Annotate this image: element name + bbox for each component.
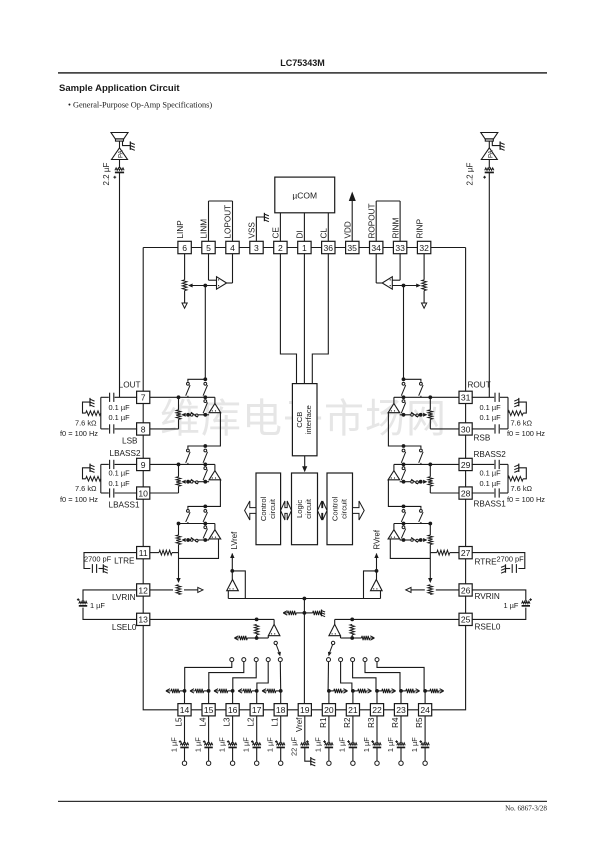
attenuator lower arrow (R) (423, 291, 425, 303)
bus node left (L) (177, 463, 181, 467)
svg-text:f0 = 100 Hz: f0 = 100 Hz (507, 495, 545, 504)
resistor row wire (R) (400, 481, 411, 483)
pin 18 terminal (280, 748, 282, 761)
pin 3 (VSS) (250, 241, 263, 253)
left column wire to pin 14 (143, 626, 178, 710)
power amp PA (R) (481, 148, 497, 160)
input attenuator from pin 32 (R) (423, 254, 425, 280)
vertical below attenuator (L) (178, 419, 180, 429)
top pin bus wire (143, 247, 465, 249)
selector switch pole (L) (274, 641, 277, 644)
bus node left (R) (428, 395, 432, 399)
Vref branch left attenuator (296, 612, 304, 614)
header rule (58, 72, 547, 73)
volume attenuator (R) (429, 524, 431, 536)
pin 16 (L3) (226, 704, 239, 716)
svg-text:11: 11 (139, 548, 148, 558)
VSS chassis ground (263, 213, 265, 221)
Vref wire with up arrow (R) (376, 554, 378, 571)
block top elbow wire (R) (404, 379, 421, 382)
svg-text:7.6 kΩ: 7.6 kΩ (511, 484, 533, 493)
resistor row wire (L) (199, 414, 210, 416)
pin 26 (RVRIN) (459, 584, 472, 596)
svg-text:4: 4 (230, 243, 235, 253)
pin 21 terminal (352, 748, 354, 761)
resistor 7.6 kOhm (L) (86, 411, 101, 416)
pin 13 (LSEL0) (137, 613, 150, 625)
svg-text:33: 33 (395, 243, 405, 253)
switch below bus (L) (204, 526, 207, 529)
svg-text:LINP: LINP (176, 220, 185, 239)
buffer amp (L) (214, 524, 216, 530)
SEL0 buffer amp (L) (273, 619, 275, 624)
treble buffer output link (L) (179, 539, 219, 559)
svg-text:0.1 µF: 0.1 µF (109, 479, 131, 488)
left column interconnect wire (142, 391, 144, 625)
svg-text:1 µF: 1 µF (362, 737, 371, 752)
svg-text:7: 7 (141, 393, 146, 403)
buffer amp (R) (393, 464, 395, 470)
svg-text:26: 26 (461, 585, 471, 595)
svg-text:Control: Control (259, 496, 268, 521)
contact routing wires (L) (185, 662, 232, 691)
SEL0 attenuator (L) (247, 637, 256, 639)
SEL0 wire (L) (150, 618, 274, 620)
svg-text:CCB: CCB (295, 412, 304, 428)
volume attenuator (L) (178, 397, 180, 410)
attenuator tap arrow (L) (186, 538, 190, 542)
svg-text:RVRIN: RVRIN (475, 592, 500, 601)
speaker (L) (111, 133, 128, 139)
selector contacts row (L) (230, 658, 234, 662)
chassis ground (R) (518, 464, 520, 472)
svg-text:Logic: Logic (295, 500, 304, 518)
pin 15 terminal (208, 748, 210, 761)
buffer amp (R) (393, 397, 395, 403)
switch on resistor row (L) (190, 480, 193, 483)
pin 29 (RBASS2) (459, 458, 472, 470)
CCB to logic arrow (304, 456, 306, 467)
coupling cap 0.1uF upper (L) (115, 396, 138, 398)
svg-text:RINP: RINP (415, 218, 424, 238)
svg-text:25: 25 (461, 615, 471, 625)
switch upper-left (L) (187, 382, 190, 385)
SEL0 node (R) (350, 618, 354, 622)
pin 16 terminal (232, 748, 234, 761)
capacitor 2.2 uF (L) (115, 168, 124, 170)
control circuit box (L) (256, 473, 281, 545)
svg-text:No. 6867-3/28: No. 6867-3/28 (505, 805, 547, 813)
svg-text:1 µF: 1 µF (266, 737, 275, 752)
logic circuit box (292, 473, 318, 545)
pin 27 (RTRE) (459, 547, 472, 559)
block top node (L) (203, 377, 207, 381)
right column wire to pin 24 (432, 626, 466, 710)
svg-text:30: 30 (461, 424, 471, 434)
op-amp output wire (L) (227, 282, 233, 284)
svg-text:7.6 kΩ: 7.6 kΩ (511, 419, 533, 428)
svg-text:1 µF: 1 µF (504, 601, 519, 610)
svg-text:31: 31 (461, 393, 471, 403)
pin 7 (LOUT) (137, 391, 150, 403)
selector contacts row (R) (375, 658, 379, 662)
svg-text:28: 28 (461, 488, 471, 498)
pin 18 cap 1 uF (280, 716, 282, 743)
svg-text:22: 22 (372, 705, 382, 715)
svg-text:14: 14 (180, 705, 190, 715)
svg-text:R3: R3 (367, 717, 376, 728)
pin 24 (R5) (419, 704, 432, 716)
non-inverting input wire (R) (392, 285, 419, 287)
attenuator tap arrow (R) (419, 538, 423, 542)
bus node left (L) (177, 395, 181, 399)
svg-text:• General-Purpose Op-Amp Speci: • General-Purpose Op-Amp Specifications) (68, 101, 212, 110)
resistor row wire (R) (400, 414, 411, 416)
coupling cap 0.1uF lower (R) (472, 492, 495, 494)
resistor 7.6 kOhm (R) (508, 476, 523, 481)
pin 35 (VDD) (346, 241, 359, 253)
switch upper-right (L) (204, 382, 207, 385)
svg-text:1 µF: 1 µF (169, 737, 178, 752)
svg-text:VDD: VDD (343, 221, 352, 238)
svg-text:CL: CL (320, 228, 329, 239)
svg-text:23: 23 (396, 705, 406, 715)
svg-text:interface: interface (304, 405, 313, 434)
pin 20 (R1) (322, 704, 335, 716)
svg-text:LVref: LVref (230, 531, 239, 550)
pin 15 cap 1 uF (208, 716, 210, 743)
SEL0 buffer input wire (L) (257, 637, 269, 639)
coupling cap 0.1uF upper (R) (472, 463, 495, 465)
SEL0 node (L) (255, 618, 259, 622)
block top node (R) (402, 444, 406, 448)
resistor ground wire (L) (83, 468, 90, 479)
volume attenuator (L) (178, 524, 180, 536)
input node (R) (402, 284, 406, 288)
svg-text:Sample Application Circuit: Sample Application Circuit (59, 83, 180, 94)
vertical below attenuator (L) (178, 486, 180, 493)
pin 19 chassis ground (310, 757, 312, 765)
svg-text:36: 36 (324, 243, 334, 253)
block top elbow wire (L) (188, 379, 205, 382)
svg-text:20: 20 (324, 705, 334, 715)
svg-text:22 µF: 22 µF (290, 737, 299, 757)
wire uCOM to DI pin 1 (303, 213, 305, 242)
svg-text:10: 10 (138, 488, 148, 498)
coupling cap 0.1uF upper (L) (115, 463, 138, 465)
switch on resistor row (L) (190, 539, 193, 542)
svg-text:34: 34 (371, 243, 381, 253)
svg-text:f0 = 100 Hz: f0 = 100 Hz (60, 429, 98, 438)
inverting input wire from pin 33 (R) (399, 254, 401, 281)
wire PA to cap (L) (119, 141, 121, 148)
svg-text:LBASS1: LBASS1 (109, 501, 140, 510)
svg-text:f0 = 100 Hz: f0 = 100 Hz (507, 429, 545, 438)
speaker chassis ground (L) (129, 141, 131, 149)
pin 14 cap 1 uF (184, 716, 186, 743)
chassis ground (R) (518, 398, 520, 406)
block bus wire (L) (150, 463, 215, 465)
bus node right (L) (203, 463, 207, 467)
SEL0 buffer input wire (R) (341, 637, 353, 639)
1 uF loop wire (R) (472, 590, 526, 602)
switch upper-right (R) (402, 449, 405, 452)
resistor row wire (L) (199, 481, 210, 483)
Vref branch node (303, 611, 307, 615)
pin 17 (L2) (250, 704, 263, 716)
block1-block2 link (R) (388, 413, 403, 446)
wire input node down to switch matrix (R) (403, 286, 405, 380)
pin 19 ground wire (305, 748, 311, 762)
pin 23 terminal (400, 748, 402, 761)
svg-text:LC75343M: LC75343M (280, 58, 325, 68)
pin 15 (L4) (202, 704, 215, 716)
svg-text:1 µF: 1 µF (338, 737, 347, 752)
selector switch lever (L) (276, 645, 279, 654)
resistor ground wire (R) (519, 402, 526, 413)
resistor row wire (L) (199, 539, 210, 541)
pin 24 cap 1 uF (424, 716, 426, 743)
bus node right (R) (402, 395, 406, 399)
block bus wire (R) (394, 396, 459, 398)
vertical below attenuator (R) (429, 419, 431, 429)
control arrow onto VRIN attenuator (L) (178, 553, 180, 578)
block bus wire (R) (394, 463, 459, 465)
bus node left (R) (428, 522, 432, 526)
switch upper-right (R) (402, 510, 405, 513)
switch below bus (R) (402, 467, 405, 470)
capacitor 2.2 uF (R) (485, 168, 494, 170)
CCB bus wires from pins 2/1/36 (280, 254, 296, 384)
pin 30 (RSB) (459, 423, 472, 435)
pin 5 (LINM) (202, 241, 215, 253)
svg-text:5: 5 (206, 243, 211, 253)
switch on resistor row (L) (190, 414, 193, 417)
pin 1 (DI) (298, 241, 311, 253)
2700 pF wire (R) (472, 553, 525, 569)
Vref branch right resistor (304, 612, 312, 614)
pin 31 (ROUT) (459, 391, 472, 403)
svg-text:24: 24 (420, 705, 430, 715)
svg-text:L4: L4 (199, 717, 208, 726)
switch upper-left (R) (420, 449, 423, 452)
pin 20 terminal (328, 748, 330, 761)
switch below bus (L) (204, 400, 207, 403)
VRIN attenuator (L) (176, 585, 181, 595)
Vref branch right chassis ground (321, 610, 323, 617)
block top elbow wire (L) (188, 506, 205, 509)
SEL0 lower node (L) (255, 636, 259, 640)
Vref buffer amp (R) (376, 571, 378, 580)
chassis ground (L) (89, 398, 91, 406)
svg-text:VSS: VSS (248, 222, 257, 239)
svg-text:R1: R1 (319, 717, 328, 728)
pin 25 (RSEL0) (459, 613, 472, 625)
attenuator tap arrow (R) (419, 413, 423, 417)
left rail from pin 6 to pin 7 (142, 248, 144, 392)
svg-text:1 µF: 1 µF (90, 601, 105, 610)
bus node right (R) (402, 463, 406, 467)
block bus wire (L) (179, 523, 215, 525)
coupling cap 0.1uF lower (L) (115, 428, 138, 430)
svg-text:LVRIN: LVRIN (112, 593, 136, 602)
svg-text:circuit: circuit (304, 498, 313, 519)
bottom attenuator row (L) (183, 689, 187, 693)
svg-text:f0 = 100 Hz: f0 = 100 Hz (60, 495, 98, 504)
svg-text:ROUT: ROUT (468, 381, 491, 390)
svg-text:RBASS2: RBASS2 (474, 450, 507, 459)
VSS ground wire (256, 217, 264, 241)
svg-text:R2: R2 (343, 717, 352, 728)
svg-text:LBASS2: LBASS2 (110, 449, 141, 458)
pin 32 (RINP) (417, 241, 430, 253)
wire 2.2uF cap down to output row (L) (119, 173, 121, 398)
pin 20 cap 1 uF (328, 716, 330, 743)
coupling cap 0.1uF lower (R) (472, 428, 495, 430)
pin 10 (LBASS1) (137, 487, 150, 499)
pin 21 cap 1 uF (352, 716, 354, 743)
Vref wire with up arrow (L) (231, 554, 233, 571)
svg-text:RTRE: RTRE (475, 558, 498, 567)
bus node right (L) (203, 395, 207, 399)
right rail from pin 32 to pin 31 (465, 248, 467, 392)
svg-text:L3: L3 (223, 717, 232, 726)
block2-block3 link (R) (388, 480, 403, 507)
svg-text:LSEL0: LSEL0 (112, 623, 137, 632)
VRIN attenuator (R) (428, 585, 433, 595)
svg-text:RINM: RINM (391, 217, 400, 238)
svg-text:circuit: circuit (339, 498, 348, 519)
svg-text:12: 12 (138, 585, 148, 595)
svg-text:0.1 µF: 0.1 µF (480, 479, 502, 488)
pin 19 decoupling cap 22 uF (304, 716, 306, 743)
svg-text:7.6 kΩ: 7.6 kΩ (75, 484, 97, 493)
svg-text:3: 3 (254, 243, 259, 253)
wire input node down to switch matrix (L) (204, 286, 206, 380)
svg-text:R5: R5 (415, 717, 424, 728)
footer rule (58, 801, 547, 802)
attenuator tap arrow (L) (186, 413, 190, 417)
op-amp output wire (R) (376, 282, 382, 284)
cap common rail (R) (507, 397, 509, 429)
2700 pF wire (L) (84, 553, 137, 569)
svg-text:1 µF: 1 µF (386, 737, 395, 752)
Vref center wire down to pin 19 (303, 599, 305, 704)
VDD supply arrow (351, 197, 353, 241)
svg-text:L5: L5 (175, 717, 184, 726)
1 uF loop wire (L) (83, 590, 137, 602)
op-amp input buffer (R) (382, 277, 392, 290)
pin 22 (R3) (370, 704, 383, 716)
block top node (L) (203, 444, 207, 448)
block top elbow wire (R) (404, 506, 421, 509)
Vref buffer amp (L) (231, 571, 233, 580)
switch upper-right (R) (402, 382, 405, 385)
right column interconnect wire (465, 391, 467, 625)
speaker ground wire (L) (123, 141, 131, 145)
block bus wire (L) (150, 396, 215, 398)
svg-text:LINM: LINM (200, 219, 209, 239)
volume attenuator (R) (429, 397, 431, 410)
bottom pin bus wire (185, 709, 426, 711)
resistor ground wire (R) (519, 468, 526, 479)
switch upper-right (L) (204, 510, 207, 513)
SEL0 series resistor (R) (350, 624, 354, 635)
capacitor 1 uF (L) (79, 601, 87, 603)
Vref buffer node (R) (375, 569, 379, 573)
pin 12 (LVRIN) (137, 584, 150, 596)
svg-text:1 µF: 1 µF (314, 737, 323, 752)
pin 16 cap 1 uF (232, 716, 234, 743)
bus node left (R) (428, 463, 432, 467)
Vref rail center node (303, 597, 307, 601)
pin 9 (LBASS2) (137, 458, 150, 470)
microcontroller U-COM box (275, 177, 335, 213)
coupling cap 0.1uF lower (L) (115, 492, 138, 494)
control arrow onto VRIN attenuator (R) (429, 553, 431, 578)
control circuit box (R) (327, 473, 353, 545)
buffer amp (L) (214, 397, 216, 403)
bus arrow logic / control-R (318, 501, 328, 520)
switch upper-left (L) (187, 449, 190, 452)
SEL0 series resistor (L) (254, 624, 258, 635)
SEL0 wire (R) (335, 618, 459, 620)
capacitor 2700 pF (L) (91, 564, 93, 573)
switch on resistor row (R) (411, 414, 414, 417)
pin 21 (R2) (346, 704, 359, 716)
pin 2 (CE) (274, 241, 287, 253)
block top node (R) (402, 377, 406, 381)
svg-text:ROPOUT: ROPOUT (367, 203, 376, 238)
pin 23 (R4) (394, 704, 407, 716)
treble attenuator lower wire (L) (178, 545, 180, 553)
cap common rail (L) (100, 397, 102, 429)
power amp PA (L) (112, 148, 128, 160)
svg-text:L2: L2 (247, 717, 256, 726)
block2-block3 link (L) (205, 480, 220, 507)
wire PA to cap (R) (488, 141, 490, 148)
input attenuator from pin 6 (L) (184, 254, 186, 280)
block1-block2 link (L) (205, 413, 220, 446)
svg-text:2700 pF: 2700 pF (84, 555, 112, 564)
bus node right (L) (203, 522, 207, 526)
svg-text:1 µF: 1 µF (242, 737, 251, 752)
switch upper-left (L) (187, 510, 190, 513)
svg-text:0.1 µF: 0.1 µF (480, 413, 502, 422)
svg-text:1 µF: 1 µF (193, 737, 202, 752)
svg-text:0.1 µF: 0.1 µF (480, 469, 502, 478)
treble series resistor to pin (L) (150, 552, 159, 554)
bus node right (R) (402, 522, 406, 526)
svg-text:15: 15 (204, 705, 214, 715)
resistor ground wire (L) (83, 402, 90, 413)
svg-text:Control: Control (330, 496, 339, 521)
bus arrow control-R outward (353, 501, 365, 520)
block top node (L) (203, 505, 207, 509)
switch below bus (R) (402, 400, 405, 403)
SEL0 buffer amp (R) (334, 619, 336, 624)
volume attenuator (L) (178, 464, 180, 476)
svg-text:17: 17 (252, 705, 262, 715)
inverting input wire from pin 5 (L) (208, 254, 210, 281)
pin 11 (LTRE) (137, 547, 150, 559)
svg-text:1 µF: 1 µF (410, 737, 419, 752)
Vref rail (228, 598, 380, 600)
svg-text:PA: PA (118, 149, 125, 158)
svg-text:32: 32 (419, 243, 429, 253)
svg-text:R4: R4 (391, 717, 400, 728)
svg-text:0.1 µF: 0.1 µF (109, 413, 131, 422)
